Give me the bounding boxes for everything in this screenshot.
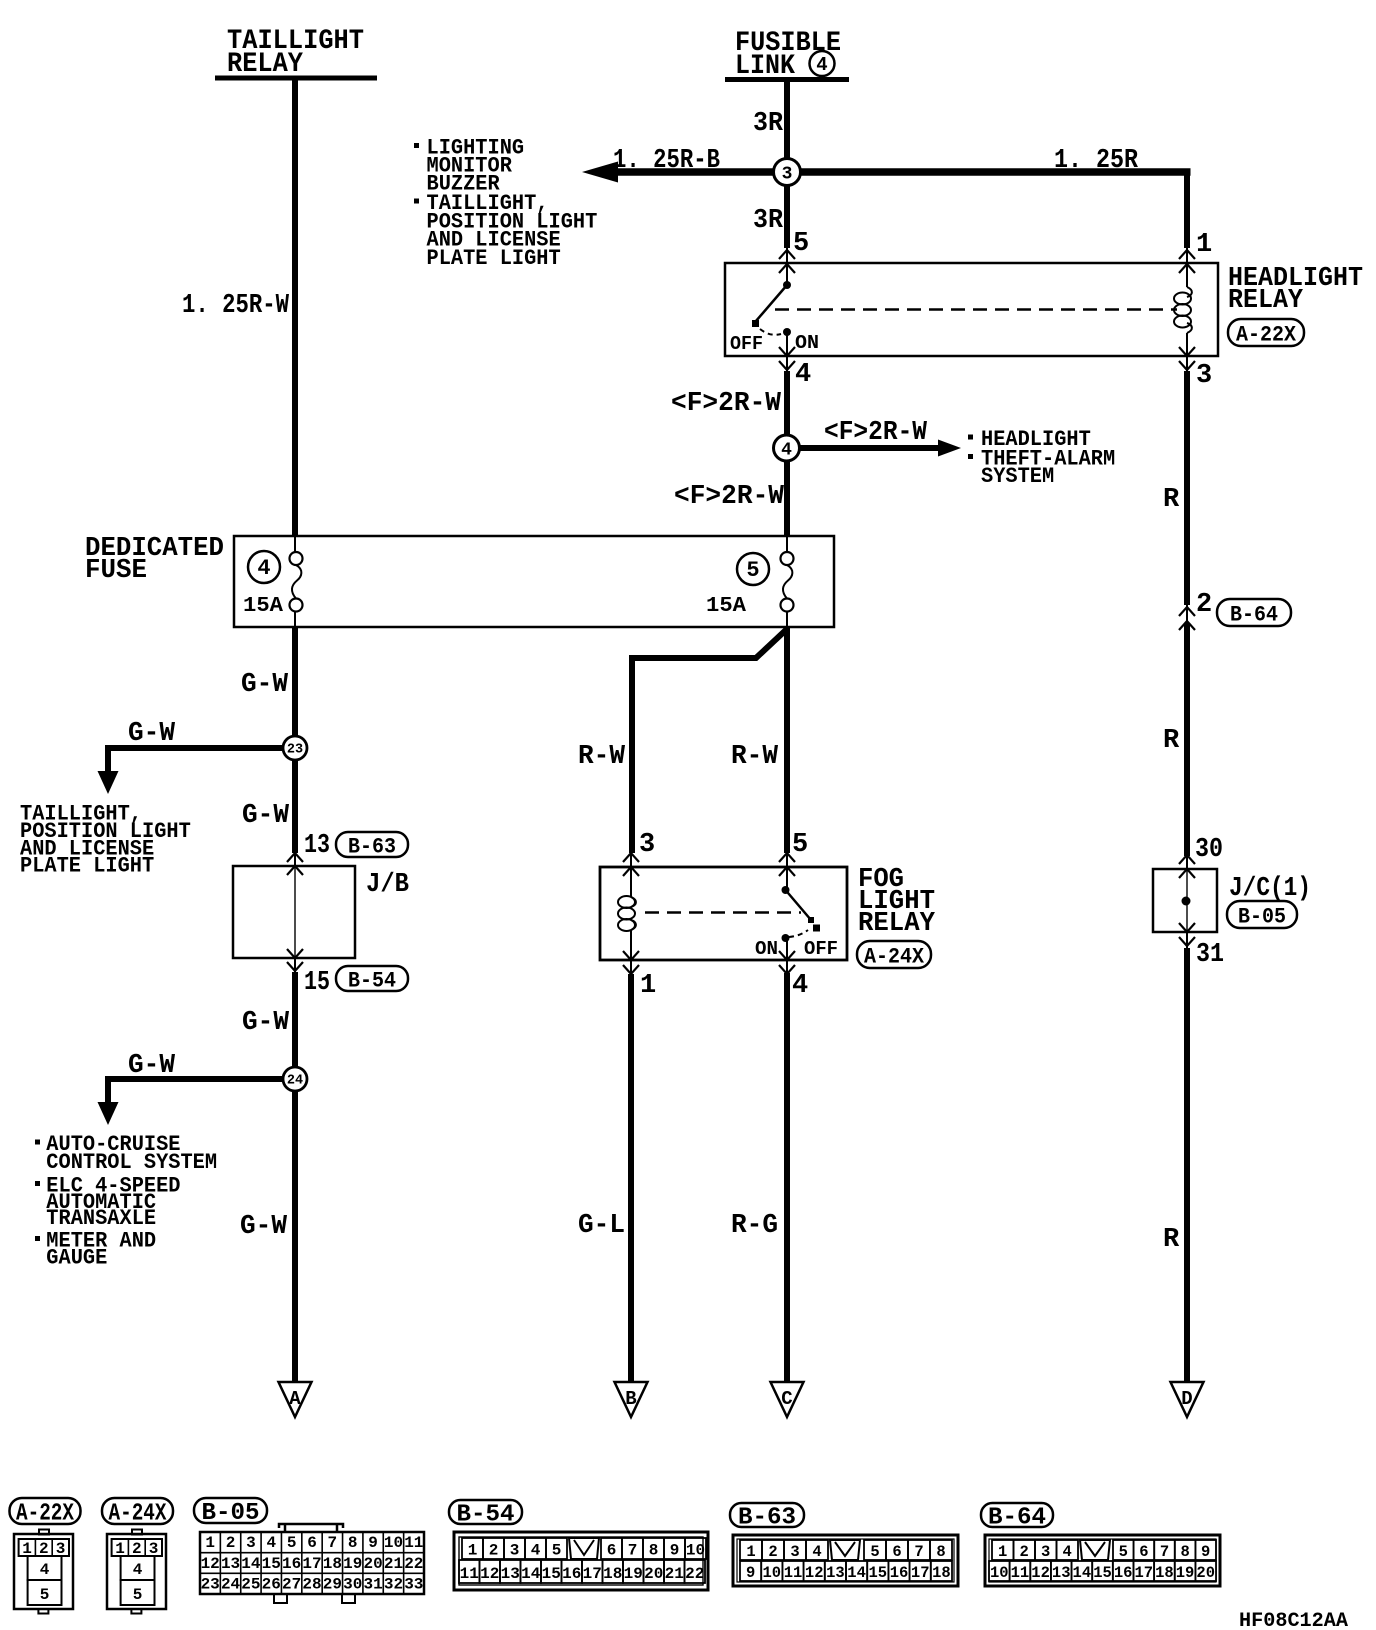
- svg-text:4: 4: [1063, 1543, 1072, 1561]
- svg-text:10: 10: [990, 1564, 1009, 1582]
- svg-text:A: A: [289, 1388, 301, 1410]
- svg-text:22: 22: [685, 1565, 704, 1583]
- svg-text:B-05: B-05: [202, 1500, 260, 1527]
- svg-text:4: 4: [133, 1561, 143, 1579]
- svg-text:3R: 3R: [753, 206, 784, 236]
- svg-text:17: 17: [911, 1564, 930, 1582]
- svg-text:B-54: B-54: [348, 968, 396, 993]
- svg-text:6: 6: [607, 1542, 617, 1560]
- svg-text:31: 31: [363, 1576, 382, 1594]
- svg-text:3: 3: [790, 1543, 799, 1561]
- svg-text:16: 16: [890, 1564, 909, 1582]
- svg-text:9: 9: [368, 1534, 378, 1552]
- svg-text:6: 6: [1139, 1543, 1148, 1561]
- svg-text:C: C: [781, 1388, 792, 1410]
- svg-text:GAUGE: GAUGE: [46, 1246, 107, 1271]
- svg-text:5: 5: [133, 1586, 143, 1604]
- svg-text:4: 4: [792, 971, 808, 1001]
- svg-text:5: 5: [793, 229, 809, 259]
- svg-text:19: 19: [1176, 1564, 1195, 1582]
- svg-text:7: 7: [328, 1534, 338, 1552]
- svg-text:4: 4: [531, 1542, 541, 1560]
- svg-text:14: 14: [847, 1564, 866, 1582]
- svg-text:15: 15: [542, 1565, 561, 1583]
- svg-text:12: 12: [201, 1555, 220, 1573]
- svg-text:15: 15: [304, 968, 330, 998]
- svg-text:7: 7: [628, 1542, 638, 1560]
- svg-text:13: 13: [304, 831, 330, 861]
- svg-text:1: 1: [468, 1542, 478, 1560]
- svg-text:B-64: B-64: [988, 1505, 1046, 1532]
- svg-text:19: 19: [624, 1565, 643, 1583]
- svg-text:8: 8: [936, 1543, 945, 1561]
- svg-text:3: 3: [246, 1534, 256, 1552]
- svg-text:G-W: G-W: [242, 1008, 290, 1038]
- svg-text:6: 6: [892, 1543, 901, 1561]
- svg-text:<F>2R-W: <F>2R-W: [824, 418, 928, 448]
- svg-text:4: 4: [266, 1534, 276, 1552]
- svg-text:5: 5: [40, 1586, 50, 1604]
- svg-text:PLATE LIGHT: PLATE LIGHT: [20, 854, 154, 879]
- svg-text:11: 11: [784, 1564, 803, 1582]
- svg-text:OFF: OFF: [730, 333, 763, 355]
- svg-text:3: 3: [1196, 361, 1212, 391]
- svg-text:18: 18: [932, 1564, 951, 1582]
- svg-text:33: 33: [404, 1576, 423, 1594]
- svg-text:20: 20: [644, 1565, 663, 1583]
- svg-text:2: 2: [226, 1534, 236, 1552]
- svg-text:24: 24: [287, 1074, 303, 1089]
- svg-text:17: 17: [1134, 1564, 1153, 1582]
- svg-text:30: 30: [1195, 835, 1223, 865]
- svg-text:11: 11: [1011, 1564, 1030, 1582]
- svg-text:23: 23: [287, 743, 303, 758]
- svg-text:12: 12: [480, 1565, 499, 1583]
- svg-text:25: 25: [241, 1576, 260, 1594]
- svg-text:9: 9: [670, 1542, 680, 1560]
- svg-text:R: R: [1163, 726, 1180, 756]
- svg-text:D: D: [1181, 1388, 1192, 1410]
- svg-text:G-W: G-W: [128, 1051, 176, 1081]
- svg-text:8: 8: [649, 1542, 659, 1560]
- svg-text:1: 1: [115, 1540, 125, 1558]
- svg-text:R-G: R-G: [731, 1211, 778, 1241]
- svg-text:A-22X: A-22X: [16, 1501, 74, 1528]
- svg-text:15: 15: [262, 1555, 281, 1573]
- svg-text:14: 14: [1073, 1564, 1092, 1582]
- svg-text:R: R: [1163, 485, 1180, 515]
- svg-text:B-63: B-63: [348, 834, 396, 859]
- svg-text:<F>2R-W: <F>2R-W: [671, 389, 782, 419]
- svg-text:16: 16: [1114, 1564, 1133, 1582]
- svg-text:R: R: [1163, 1225, 1180, 1255]
- svg-text:B-54: B-54: [457, 1502, 515, 1529]
- svg-text:B: B: [625, 1388, 636, 1410]
- svg-text:28: 28: [302, 1576, 321, 1594]
- svg-text:4: 4: [257, 556, 270, 581]
- svg-text:RELAY: RELAY: [858, 909, 936, 939]
- svg-text:OFF: OFF: [804, 938, 838, 960]
- svg-text:PLATE LIGHT: PLATE LIGHT: [427, 246, 561, 271]
- svg-text:18: 18: [603, 1565, 622, 1583]
- svg-text:8: 8: [1180, 1543, 1189, 1561]
- svg-text:14: 14: [241, 1555, 261, 1573]
- svg-text:J/C(1): J/C(1): [1229, 874, 1311, 904]
- svg-text:10: 10: [384, 1534, 403, 1552]
- svg-text:B-64: B-64: [1230, 602, 1278, 627]
- svg-text:9: 9: [746, 1564, 755, 1582]
- svg-text:LINK: LINK: [735, 51, 795, 82]
- svg-text:18: 18: [1155, 1564, 1174, 1582]
- svg-text:13: 13: [826, 1564, 845, 1582]
- svg-text:5: 5: [287, 1534, 297, 1552]
- svg-text:TRANSAXLE: TRANSAXLE: [46, 1206, 156, 1231]
- svg-text:27: 27: [282, 1576, 301, 1594]
- svg-text:17: 17: [583, 1565, 602, 1583]
- svg-text:1. 25R-W: 1. 25R-W: [182, 291, 290, 321]
- svg-text:30: 30: [343, 1576, 362, 1594]
- svg-text:21: 21: [384, 1555, 403, 1573]
- svg-text:CONTROL SYSTEM: CONTROL SYSTEM: [46, 1150, 217, 1175]
- svg-text:5: 5: [870, 1543, 879, 1561]
- svg-text:ON: ON: [755, 938, 778, 960]
- svg-text:8: 8: [348, 1534, 358, 1552]
- svg-text:1: 1: [1196, 230, 1212, 260]
- svg-text:16: 16: [282, 1555, 301, 1573]
- svg-text:20: 20: [363, 1555, 382, 1573]
- svg-text:J/B: J/B: [366, 870, 409, 900]
- svg-text:3: 3: [510, 1542, 520, 1560]
- svg-text:4: 4: [795, 360, 811, 390]
- svg-text:11: 11: [460, 1565, 479, 1583]
- svg-text:18: 18: [323, 1555, 342, 1573]
- svg-text:9: 9: [1201, 1543, 1210, 1561]
- svg-text:21: 21: [665, 1565, 684, 1583]
- svg-text:3R: 3R: [753, 109, 784, 139]
- svg-text:A-24X: A-24X: [109, 1501, 167, 1528]
- svg-text:11: 11: [404, 1534, 423, 1552]
- svg-text:10: 10: [762, 1564, 781, 1582]
- svg-text:3: 3: [1041, 1543, 1050, 1561]
- svg-text:G-W: G-W: [128, 719, 176, 749]
- svg-text:RELAY: RELAY: [227, 49, 303, 80]
- svg-text:26: 26: [262, 1576, 281, 1594]
- svg-text:B-05: B-05: [1238, 904, 1286, 929]
- svg-text:3: 3: [639, 830, 655, 860]
- svg-text:FUSE: FUSE: [85, 556, 147, 586]
- svg-text:13: 13: [1052, 1564, 1071, 1582]
- svg-text:17: 17: [302, 1555, 321, 1573]
- svg-text:19: 19: [343, 1555, 362, 1573]
- svg-text:12: 12: [1031, 1564, 1050, 1582]
- svg-text:4: 4: [812, 1543, 821, 1561]
- svg-text:5: 5: [1119, 1543, 1128, 1561]
- svg-text:2: 2: [39, 1540, 49, 1558]
- svg-text:G-W: G-W: [242, 801, 290, 831]
- svg-text:1: 1: [998, 1543, 1007, 1561]
- svg-text:4: 4: [781, 441, 792, 461]
- svg-text:13: 13: [221, 1555, 240, 1573]
- svg-text:5: 5: [746, 558, 759, 583]
- svg-text:7: 7: [914, 1543, 923, 1561]
- svg-text:24: 24: [221, 1576, 241, 1594]
- svg-text:SYSTEM: SYSTEM: [981, 464, 1054, 489]
- svg-text:4: 4: [40, 1561, 50, 1579]
- svg-text:1: 1: [746, 1543, 755, 1561]
- svg-text:29: 29: [323, 1576, 342, 1594]
- svg-text:5: 5: [552, 1542, 562, 1560]
- svg-text:2: 2: [1196, 590, 1212, 620]
- svg-text:1. 25R-B: 1. 25R-B: [613, 146, 720, 176]
- svg-text:15A: 15A: [243, 595, 283, 618]
- svg-text:1: 1: [22, 1540, 32, 1558]
- svg-text:<F>2R-W: <F>2R-W: [674, 482, 785, 512]
- svg-text:ON: ON: [795, 332, 819, 354]
- svg-text:12: 12: [805, 1564, 824, 1582]
- svg-text:G-W: G-W: [241, 670, 289, 700]
- svg-text:14: 14: [521, 1565, 541, 1583]
- svg-text:13: 13: [501, 1565, 520, 1583]
- svg-text:G-L: G-L: [578, 1211, 625, 1241]
- svg-text:6: 6: [307, 1534, 317, 1552]
- svg-text:R-W: R-W: [731, 742, 779, 772]
- svg-text:3: 3: [56, 1540, 66, 1558]
- svg-text:22: 22: [404, 1555, 423, 1573]
- svg-text:G-W: G-W: [240, 1212, 288, 1242]
- svg-text:B-63: B-63: [738, 1505, 796, 1532]
- svg-text:2: 2: [132, 1540, 142, 1558]
- svg-text:23: 23: [201, 1576, 220, 1594]
- svg-text:1: 1: [640, 971, 656, 1001]
- svg-text:16: 16: [562, 1565, 581, 1583]
- svg-text:1. 25R: 1. 25R: [1054, 146, 1139, 176]
- svg-text:HF08C12AA: HF08C12AA: [1239, 1610, 1348, 1630]
- svg-text:R-W: R-W: [578, 742, 626, 772]
- svg-text:15: 15: [1093, 1564, 1112, 1582]
- svg-text:RELAY: RELAY: [1228, 286, 1304, 316]
- svg-text:15A: 15A: [706, 595, 746, 618]
- svg-text:2: 2: [1020, 1543, 1029, 1561]
- svg-text:31: 31: [1196, 940, 1224, 970]
- svg-text:7: 7: [1160, 1543, 1169, 1561]
- svg-text:10: 10: [686, 1542, 705, 1560]
- svg-text:3: 3: [782, 165, 793, 185]
- svg-text:2: 2: [489, 1542, 499, 1560]
- svg-text:3: 3: [149, 1540, 159, 1558]
- svg-text:20: 20: [1196, 1564, 1215, 1582]
- svg-text:5: 5: [792, 830, 808, 860]
- svg-text:15: 15: [868, 1564, 887, 1582]
- svg-text:A-24X: A-24X: [864, 944, 925, 969]
- svg-text:1: 1: [205, 1534, 215, 1552]
- svg-text:32: 32: [384, 1576, 403, 1594]
- svg-text:2: 2: [768, 1543, 777, 1561]
- svg-text:A-22X: A-22X: [1236, 322, 1297, 347]
